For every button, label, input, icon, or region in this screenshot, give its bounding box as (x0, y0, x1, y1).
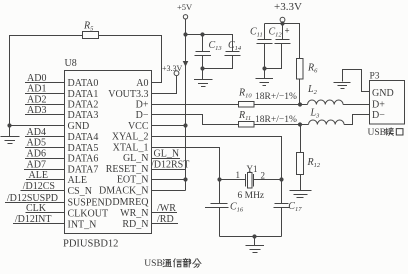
svg-text:WR_N: WR_N (120, 208, 148, 219)
svg-text:18R+/−1%: 18R+/−1% (255, 92, 297, 102)
svg-text:AD6: AD6 (27, 148, 46, 159)
svg-text:GND: GND (372, 88, 394, 99)
svg-text:AD0: AD0 (27, 73, 46, 84)
svg-text:ALE: ALE (29, 170, 48, 181)
svg-text:RESET_N: RESET_N (106, 164, 149, 175)
svg-text:18R+/−1%: 18R+/−1% (255, 115, 297, 125)
svg-text:XTAL_1: XTAL_1 (113, 142, 149, 153)
svg-text:6 MHz: 6 MHz (238, 191, 265, 201)
svg-text:+5V: +5V (177, 2, 193, 12)
svg-text:DATA7: DATA7 (68, 165, 99, 176)
svg-text:/RD: /RD (157, 214, 174, 225)
svg-text:P3: P3 (370, 72, 380, 82)
svg-text:GND: GND (68, 121, 90, 132)
svg-text:+3.3V: +3.3V (162, 64, 183, 73)
svg-text:AD7: AD7 (27, 159, 46, 170)
svg-text:A0: A0 (136, 78, 148, 89)
svg-text:DMACK_N: DMACK_N (99, 186, 148, 197)
svg-text:EOT_N: EOT_N (117, 175, 149, 186)
svg-text:DATA3: DATA3 (68, 110, 99, 121)
svg-text:VCC: VCC (128, 121, 149, 132)
svg-text:DMREQ: DMREQ (112, 197, 149, 208)
svg-text:USB: USB (144, 259, 162, 269)
svg-text:INT_N: INT_N (68, 219, 97, 230)
svg-text:DATA1: DATA1 (68, 89, 99, 100)
svg-text:AD2: AD2 (27, 94, 46, 105)
svg-text:DATA4: DATA4 (68, 132, 99, 143)
svg-text:VOUT3.3: VOUT3.3 (108, 89, 148, 100)
svg-text:/D12RST: /D12RST (151, 159, 189, 170)
svg-text:SUSPEND: SUSPEND (68, 197, 112, 208)
svg-text:CLKOUT: CLKOUT (68, 208, 109, 219)
svg-text:DATA5: DATA5 (68, 143, 99, 154)
svg-text:D−: D− (136, 110, 149, 121)
svg-text:GL_N: GL_N (123, 153, 149, 164)
svg-text:+: + (285, 26, 290, 36)
svg-text:AD3: AD3 (27, 105, 46, 116)
svg-text:DATA2: DATA2 (68, 100, 99, 111)
svg-text:XYAL_2: XYAL_2 (112, 132, 149, 143)
svg-text:D+: D+ (372, 100, 385, 111)
svg-text:GL_N: GL_N (154, 148, 180, 159)
svg-text:DATA6: DATA6 (68, 154, 99, 165)
svg-text:D+: D+ (136, 100, 149, 111)
svg-text:AD4: AD4 (27, 127, 46, 138)
svg-text:Y1: Y1 (247, 164, 258, 174)
svg-text:U8: U8 (65, 58, 77, 69)
svg-text:CLK: CLK (26, 203, 47, 214)
svg-text:RD_N: RD_N (122, 219, 148, 230)
svg-text:ALE: ALE (68, 175, 87, 186)
svg-text:/WR: /WR (157, 203, 176, 214)
svg-text:AD1: AD1 (27, 84, 46, 95)
svg-text:/D12CS: /D12CS (23, 181, 55, 192)
svg-text:1: 1 (236, 170, 241, 180)
svg-text:CS_N: CS_N (68, 186, 92, 197)
svg-text:/D12INT: /D12INT (15, 214, 52, 225)
svg-text:AD5: AD5 (27, 138, 46, 149)
svg-text:D−: D− (372, 110, 385, 121)
svg-text:+3.3V: +3.3V (274, 1, 302, 13)
svg-text:DATA0: DATA0 (68, 78, 99, 89)
svg-text:PDIUSBD12: PDIUSBD12 (63, 239, 118, 250)
svg-text:USB: USB (368, 128, 386, 138)
svg-text:2: 2 (261, 171, 266, 181)
